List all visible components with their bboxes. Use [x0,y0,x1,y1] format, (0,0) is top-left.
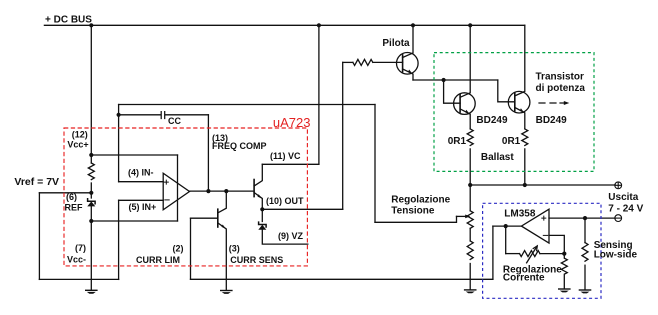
svg-text:Pilota: Pilota [382,38,410,49]
wire IN- riser [118,115,120,182]
transistor Q2 BD249 [508,91,530,113]
svg-text:Vcc+: Vcc+ [67,140,88,150]
wire pot bottom to ground [469,264,471,290]
junction node zener bottom [89,219,93,223]
box LM358 blue dashed [483,203,601,298]
op-amp U error amplifier [163,173,189,210]
svg-text:Transistor: Transistor [536,71,584,82]
box uA723 red dashed [64,128,307,266]
wire Vcc+ node to opamp power right [91,154,177,156]
svg-text:di potenza: di potenza [536,83,586,94]
svg-text:(10) OUT: (10) OUT [266,196,304,206]
resistor 0R1 second [522,129,528,146]
junction opamp out/curr-lim collector [224,189,228,193]
transistor Q1 BD249 [454,93,476,115]
wire curr-lim drop [190,218,192,279]
svg-text:Low-side: Low-side [594,249,638,260]
wire OUT riser to pilot [342,62,344,209]
svg-text:(5) IN+: (5) IN+ [129,202,157,212]
wire IN+ riser [118,200,120,279]
wire pot tensione top [469,185,471,211]
svg-text:LM358: LM358 [504,209,536,220]
wire zener node to opamp power bottom [91,220,177,222]
wire REF node left [39,192,91,194]
svg-text:Corrente: Corrente [503,272,545,283]
wire sensing resistor top [584,218,586,243]
junction bus/Vcc+ [89,23,93,27]
ground pot tensione [464,289,477,293]
junction rail/0R1-1 [468,183,472,187]
wire resistor to pilot base [373,61,403,63]
transistor Q curr-lim emitter [218,223,227,290]
svg-text:BD249: BD249 [536,115,568,126]
wire vref loop left vertical [38,193,40,280]
svg-text:(3): (3) [229,243,240,253]
svg-text:FREQ COMP: FREQ COMP [212,141,267,151]
junction pot corrente right [562,252,566,256]
wiper arrow tensione [457,215,466,217]
wire CC drop to output rail [207,115,209,191]
zener D ref [87,199,95,207]
wire IN- to opamp [119,181,164,183]
wire LM358 output [493,225,522,227]
minus mark LM358 [543,234,547,236]
svg-text:CURR SENS: CURR SENS [230,255,283,265]
terminal minus output [615,215,622,222]
transistor Q curr-lim collector [218,191,227,213]
arrow emitter Q curr-lim [222,225,226,229]
wire curr-lim base [191,217,218,219]
wire to base resistor [343,61,353,63]
svg-text:BD249: BD249 [476,115,508,126]
resistor pot corrente [520,251,540,257]
junction bus/pilota collector [411,23,415,27]
wire pot corrente riser [505,226,507,254]
junction bus/Q1 collector [468,23,472,27]
zener D vz [258,222,266,230]
wire IN+ to opamp [119,199,164,201]
wire bottom long to LM358 [191,278,493,280]
svg-text:Ballast: Ballast [481,152,514,163]
transistor Q out emitter [254,193,262,210]
resistor pot tensione lower [467,241,473,260]
svg-text:(11) VC: (11) VC [270,151,301,161]
resistor 0R1 first [467,129,473,146]
wire wiper riser from freq rail [374,105,376,223]
wire output rail [470,184,615,186]
transistor Q out: base bar [253,180,255,197]
wire drop to BD249-1 base [444,80,461,103]
junction sensing top [583,216,587,220]
ground curr sens [220,290,233,294]
wire CC right [165,114,208,116]
ground pot corrente [558,288,571,292]
minus mark bottom input [165,199,169,201]
wire OUT to zener VZ [261,209,263,221]
svg-text:(12): (12) [72,130,88,140]
plus mark top input [164,180,168,184]
wire pot corrente left [506,253,520,255]
wire VC riser to bus [318,25,320,164]
resistor sensing low-side [582,243,588,262]
resistor R pilot base [353,59,373,65]
svg-text:0R1: 0R1 [502,136,521,147]
dashed arrow transistor di potenza [539,102,565,104]
svg-text:(6): (6) [66,192,77,202]
svg-text:(2): (2) [173,243,184,253]
wire 0R1-2 to rail [524,149,526,185]
wire pot corrente right [540,253,564,255]
junction node Vcc+ pin 12 [89,153,93,157]
op-amp U2 LM358 [521,209,549,243]
wire +DC bus [44,24,524,26]
ground sensing [579,289,592,293]
svg-text:uA723: uA723 [273,115,311,130]
wire CC left [119,114,161,116]
junction opamp out/CC [206,189,210,193]
capacitor CC [161,112,165,119]
plus mark LM358 [542,216,546,220]
junction pilota emitter rail [442,78,446,82]
wire VC horizontal [262,163,319,165]
wire VZ stub [262,229,308,244]
svg-text:Vcc-: Vcc- [67,254,86,264]
wire pot middle [469,228,471,241]
wire zener to node [90,207,92,290]
ground ref divider [85,290,98,294]
junction node CC/pin13 [117,113,121,117]
svg-text:+ DC BUS: + DC BUS [45,14,92,25]
resistor R ref divider top [88,163,94,180]
svg-text:7 - 24 V: 7 - 24 V [608,203,643,214]
svg-text:CC: CC [168,116,181,126]
svg-text:CURR LIM: CURR LIM [136,255,180,265]
wire LM358 minus input [549,235,564,253]
svg-text:Tensione: Tensione [391,205,435,216]
wire sensing to ground [584,265,586,289]
wire resistor to zener [90,183,92,198]
transistor Q pilota [397,53,419,75]
wire opamp power vertical [177,155,179,221]
terminal plus output [615,182,622,189]
transistor Q out collector [254,164,262,186]
wire drop to BD249-2 base [498,80,515,102]
junction node REF pin 6 [89,191,93,195]
svg-text:(9) VZ: (9) VZ [278,231,304,241]
junction LM358 out/pot riser [504,224,508,228]
svg-text:Regolazione: Regolazione [391,194,450,205]
wire wiper horizontal [375,216,457,222]
wire freq-comp rail [119,104,375,106]
junction node OUT pin 10 [260,207,264,211]
svg-text:Uscita: Uscita [608,192,638,203]
wire 0R1-1 to rail [469,149,471,185]
wire LM358 plus input [549,217,615,219]
junction rail/0R1-2 [523,183,527,187]
svg-text:REF: REF [65,203,84,213]
wire Vcc+ drop from bus [90,25,92,163]
wire opamp output rail [190,190,255,192]
resistor pot tensione upper [467,211,473,229]
svg-text:0R1: 0R1 [448,136,467,147]
svg-text:(4) IN-: (4) IN- [128,168,154,178]
wire vref loop bottom [39,278,118,280]
arrow emitter Q out [258,194,262,198]
wire IN- riser top [118,105,120,115]
svg-text:Vref = 7V: Vref = 7V [14,176,59,188]
wiper arrow corrente [527,246,537,262]
wire OUT node right [262,208,342,210]
resistor below pot corrente [561,254,567,288]
transistor Q curr-lim base bar [217,209,219,227]
wire LM358 output drop [492,226,494,279]
junction bus/VC riser [317,23,321,27]
box transistor di potenza green dashed [434,53,594,172]
wire pilota emitter rail [413,79,498,81]
svg-text:(7): (7) [75,243,86,253]
